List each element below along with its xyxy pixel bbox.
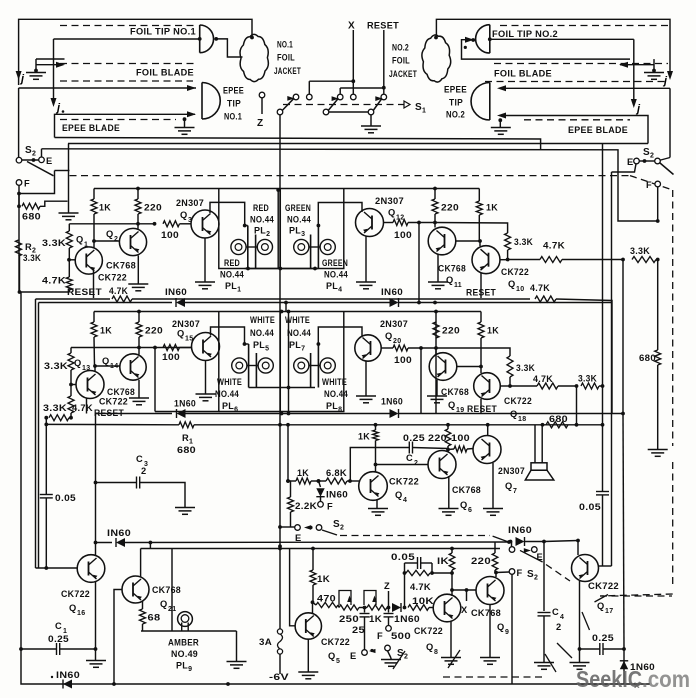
ground: epee blade No.1 [183, 117, 187, 121]
ground: E switch bottom [381, 659, 401, 661]
j arrow right [667, 71, 673, 80]
svg-text:CK768: CK768 [438, 264, 466, 274]
svg-text:EPEE: EPEE [444, 85, 467, 95]
svg-text:C: C [136, 454, 143, 464]
ground: Q17 [570, 662, 590, 664]
wire: F bottom right [496, 571, 509, 574]
wire: S2 blade to F node [21, 171, 55, 194]
wire: Q7 collector to rail [487, 425, 489, 436]
foil jacket No.1 blob [240, 34, 268, 81]
resistor 220 bottom [492, 553, 498, 570]
svg-text:1K: 1K [100, 326, 112, 336]
svg-text:IN60: IN60 [56, 670, 80, 680]
svg-text:C: C [552, 607, 559, 617]
svg-text:Q: Q [328, 651, 336, 661]
wire: Q16 base [36, 567, 78, 569]
rail: row1 top rail [94, 188, 479, 190]
wire: Q20 emitter ground [365, 361, 367, 396]
wire: reset feed to row2 [285, 303, 287, 312]
svg-text:4: 4 [403, 497, 407, 504]
svg-text:F: F [646, 180, 652, 190]
svg-text:FOIL TIP NO.2: FOIL TIP NO.2 [492, 29, 558, 39]
svg-text:1K: 1K [297, 468, 309, 478]
contact: epee tip No.2 [489, 83, 491, 121]
Z terminal [259, 92, 265, 98]
svg-text:2: 2 [414, 460, 418, 467]
wire: speaker feed [534, 425, 536, 463]
foil blade No.1 dashed box [60, 63, 196, 65]
wire: rail B drop to amber lamp [171, 549, 173, 632]
svg-text:RED: RED [224, 258, 240, 268]
resistor 10K [408, 605, 429, 611]
wire: Q21 collector up to rail B [140, 549, 142, 578]
wire: 0.05/4.7K loop [404, 573, 406, 608]
resistor 3.3K horizontal row2 [44, 416, 48, 420]
svg-text:NO.44: NO.44 [215, 389, 239, 399]
resistor 4.7K row1 right [540, 257, 562, 263]
svg-text:2: 2 [114, 236, 118, 243]
svg-text:GREEN: GREEN [285, 203, 311, 213]
svg-text:4.7K: 4.7K [410, 582, 431, 592]
ground: amber lamp [236, 631, 238, 661]
rail: R1 line [46, 423, 179, 425]
capacitor C3 [94, 481, 98, 485]
transistor Q17 CK722 [572, 555, 599, 582]
S2 right blade [660, 163, 674, 175]
capacitor C2 0.25 [350, 448, 409, 482]
wire: Q2 base [94, 240, 119, 242]
svg-text:IN60: IN60 [508, 525, 532, 535]
svg-text:X: X [348, 21, 355, 32]
svg-text:Q: Q [160, 599, 168, 609]
svg-text:Q: Q [102, 356, 110, 366]
resistor 1K row1 left [93, 189, 95, 200]
rail: ground bus drop right [602, 144, 604, 492]
wire: Q10 emitter to reset line [480, 273, 482, 298]
svg-text:IK: IK [437, 556, 449, 566]
wire: Q1 emitter to reset line [93, 269, 95, 298]
svg-text:3: 3 [188, 217, 192, 224]
S1 contacts bottom row [277, 109, 283, 115]
svg-text:16: 16 [77, 610, 85, 617]
svg-text:X: X [461, 605, 468, 615]
svg-text:Q: Q [395, 490, 403, 500]
ground: Q3 [195, 281, 215, 283]
lamp box row2 [155, 312, 219, 412]
wire between S1 poles [329, 111, 368, 113]
node: jacket No.1 connection [250, 36, 254, 40]
svg-text:NO.44: NO.44 [220, 270, 244, 280]
wire: Q2 emitter to ground [137, 256, 139, 284]
svg-text:11: 11 [454, 282, 462, 289]
wire: foil tip No.2 line [491, 38, 634, 40]
wire: Q11 emitter to ground [437, 255, 439, 282]
svg-text:2N307: 2N307 [375, 196, 404, 206]
svg-text:220: 220 [145, 326, 163, 336]
resistor 68 Q21 emitter [142, 601, 144, 609]
wires: row2 right verticals [420, 348, 422, 414]
transistor Q10 CK722 [472, 246, 500, 274]
diode IN60 row1 right [390, 298, 399, 307]
wire: 220 into Q14 [138, 348, 140, 355]
resistor 250 [339, 605, 359, 610]
diode 1N60 bottom chain [392, 603, 401, 612]
svg-text:Q: Q [74, 358, 82, 368]
svg-text:Q: Q [460, 500, 468, 510]
transistor Q15 2N307 [192, 333, 220, 361]
rail: E bus [42, 149, 659, 221]
resistor 1K row2 right [480, 312, 482, 323]
resistor 1K bottom chain [367, 605, 387, 610]
IN60 line (left) [94, 541, 98, 545]
wire: row2 base bus left [71, 347, 191, 349]
svg-text:4: 4 [560, 614, 564, 621]
svg-text:680: 680 [22, 212, 41, 222]
resistor 680 vertical right [657, 260, 659, 351]
resistor 4.7K reset row1 left [112, 296, 132, 302]
svg-text:250: 250 [339, 614, 359, 624]
wire: row1 center feed [277, 190, 279, 269]
ground: C3 [175, 507, 195, 509]
ground: foil blade No.1 [26, 72, 46, 74]
resistor 100 row1 left [163, 221, 180, 227]
svg-text:RESET: RESET [466, 288, 496, 298]
svg-text:AMBER: AMBER [168, 638, 199, 648]
contact E right [509, 547, 515, 553]
epee blade No.1 box [55, 114, 196, 137]
S1 gang dashed line [283, 104, 404, 106]
svg-text:JACKET: JACKET [389, 69, 417, 79]
svg-text:TIP: TIP [227, 99, 241, 109]
diode IN60 vertical with F [317, 479, 321, 483]
transistor Q8 CK722 [433, 594, 461, 622]
svg-text:Q: Q [426, 642, 434, 652]
transistor Q4 CK722 [359, 472, 388, 501]
ground: Q15 [196, 393, 216, 395]
svg-text:WHITE: WHITE [322, 377, 347, 387]
wire: foil tip No.1 to jacket [217, 39, 243, 57]
svg-text:4.7K: 4.7K [530, 283, 550, 293]
svg-text:.com: .com [642, 666, 690, 692]
wire: epee tip No.1 feed [19, 87, 196, 89]
resistor 680 (top left) [17, 204, 21, 208]
resistor 100 row2 right [381, 347, 393, 349]
wire: Q21 base [114, 590, 122, 685]
resistor 470 [313, 602, 317, 605]
svg-text:EPEE: EPEE [223, 86, 244, 96]
ground: foil blade No.2 [644, 72, 664, 74]
rail: epee blade box bottom (left) [55, 138, 541, 151]
svg-text:18: 18 [518, 416, 526, 423]
wire j No.1 down [53, 39, 55, 103]
diode IN60 bottom right [620, 661, 628, 669]
svg-text:0.05: 0.05 [391, 552, 415, 562]
ground: Q20 [356, 395, 376, 397]
diode IN60 row1 left [176, 298, 185, 307]
svg-text:0.05: 0.05 [579, 502, 601, 512]
capacitor 0.05 left [45, 424, 47, 494]
svg-text:CK768: CK768 [152, 585, 181, 595]
dashed: bottom boundary [600, 595, 672, 597]
diode line row1 [39, 302, 173, 304]
svg-text:0.25: 0.25 [592, 633, 614, 643]
wire: S2 mid wire [278, 525, 282, 529]
F terminal left [16, 180, 22, 186]
wire: epee tip No.2 feed [503, 87, 670, 89]
middle stage: 1K 6.8K to Q4 [278, 423, 282, 427]
wire: PL8 feed to Q20 [318, 327, 362, 344]
svg-text:-6V: -6V [269, 672, 289, 683]
wire: amber lamp feed [141, 630, 237, 632]
diode IN60 right (to E contact) [516, 537, 525, 546]
svg-text:4.7K: 4.7K [543, 241, 565, 251]
resistor 4.7K row2 right [537, 383, 558, 389]
resistor 1K mid [296, 478, 311, 484]
svg-text:17: 17 [605, 608, 613, 615]
dashed boundary upper [70, 175, 631, 177]
switch S2 mid [295, 525, 301, 531]
svg-text:SeekIC: SeekIC [576, 666, 642, 692]
svg-text:CK722: CK722 [99, 397, 128, 407]
svg-text:4.7K: 4.7K [72, 403, 93, 413]
wire: Q9 emitter ground [489, 605, 491, 658]
svg-text:5: 5 [336, 658, 340, 665]
svg-text:1K: 1K [369, 614, 382, 624]
svg-text:Q: Q [597, 601, 605, 611]
resistor 3.3K row2 right [581, 383, 599, 389]
wire: E contact right stem [612, 164, 637, 172]
resistor 1K mid2 [373, 430, 379, 441]
svg-text:NO.44: NO.44 [324, 389, 348, 399]
center vertical from S1 pole 1 down [279, 115, 281, 190]
wire: R1 node [44, 423, 48, 427]
wire: Q4 base node to Q6 [376, 464, 429, 466]
ground: top left rail [68, 144, 70, 213]
wire: Q3 collector to lamp PL2 [210, 202, 245, 225]
gang diagonal strokes bottom [393, 651, 405, 669]
svg-text:3.3K: 3.3K [516, 363, 535, 373]
svg-text:220: 220 [144, 203, 162, 213]
svg-text:1: 1 [84, 242, 88, 249]
wire: Q19 base to 1K [457, 366, 481, 368]
wire: base bus row1 right [435, 223, 508, 234]
svg-text:C: C [406, 453, 413, 463]
diode line row2 [96, 413, 173, 415]
wire: X node [452, 589, 476, 591]
S2 mid blade dashed [322, 530, 337, 535]
svg-text:E: E [295, 533, 302, 543]
wire: foil blade No.2 ground tap [620, 64, 654, 66]
svg-text:F: F [327, 502, 333, 512]
wire: 1K into Q10 [479, 241, 481, 246]
transistor Q18 CK722 [474, 373, 501, 400]
ground: Q9 [480, 657, 500, 659]
svg-text:6: 6 [468, 507, 472, 514]
svg-text:10K: 10K [412, 596, 434, 606]
lamps PL3 PL4 (GREEN) [310, 235, 312, 269]
transistor Q14 CK768 [120, 354, 146, 380]
resistor 3.3K to F line [632, 257, 656, 263]
wire: Q5 base from rail [290, 549, 296, 626]
svg-text:TIP: TIP [449, 98, 463, 108]
svg-text:Q: Q [385, 331, 393, 341]
wire: 4.7K node drop to diode line row2 [622, 260, 624, 414]
S1 blade 1 [282, 99, 293, 111]
resistor 1K bottom [312, 549, 314, 571]
svg-text:IN60: IN60 [107, 528, 131, 538]
svg-text:CK722: CK722 [98, 273, 127, 283]
wire: 220 into Q2 [137, 224, 139, 229]
wire: Q8 collector [451, 590, 453, 596]
transistor Q3 2N307 [191, 210, 219, 238]
transistor Q12 2N307 [356, 209, 384, 237]
svg-text:220: 220 [441, 203, 459, 213]
svg-text:FOIL: FOIL [392, 56, 410, 66]
svg-text:2.2K: 2.2K [295, 501, 317, 511]
diode IN60 row2 left [177, 409, 186, 418]
svg-text:NO.44: NO.44 [250, 328, 274, 338]
svg-text:220: 220 [428, 433, 447, 443]
resistor 100 row1 right [384, 222, 394, 224]
svg-text:4.7K: 4.7K [109, 286, 128, 297]
svg-text:Q: Q [69, 603, 77, 613]
wire: Q19 emitter ground [436, 380, 438, 396]
svg-text:NO.2: NO.2 [446, 110, 465, 120]
svg-text:15: 15 [185, 336, 193, 343]
transistor Q1 CK722 [75, 247, 102, 274]
ground: epee tip No.2 [498, 118, 502, 122]
transistor Q9 CK768 [476, 577, 504, 605]
wire: row1 right vertical to diode line [418, 223, 420, 303]
diode IN60 row2 right [390, 409, 399, 418]
transistor Q19 CK768 [429, 353, 457, 381]
svg-text:CK722: CK722 [501, 267, 529, 277]
svg-text:2N307: 2N307 [380, 319, 408, 329]
svg-text:Q: Q [76, 235, 84, 245]
epee blade No.2 box [503, 116, 648, 144]
wire: Q4 collector from rail [375, 425, 377, 430]
transistor Q21 CK768 [122, 576, 149, 603]
svg-text:1N60: 1N60 [394, 614, 420, 624]
svg-text:2N307: 2N307 [172, 319, 200, 329]
svg-text:E: E [627, 157, 634, 167]
wire: 4.7K drop right [623, 414, 624, 650]
wire: Q18 emitter to reset line [480, 399, 482, 414]
svg-text:WHITE: WHITE [217, 377, 242, 387]
svg-text:Z: Z [384, 581, 390, 591]
resistor 3.3K Q1 base [68, 224, 70, 231]
resistor 4.7K Q1 emitter [66, 277, 72, 290]
svg-text:CK722: CK722 [588, 581, 619, 591]
resistor 100 row2 left [163, 345, 180, 351]
wire: lamp bottoms row2 [249, 387, 315, 389]
capacitor 0.05 right [596, 491, 609, 493]
wire: Q15 emitter ground [205, 361, 207, 394]
wire: 1K into Q13 [94, 366, 96, 371]
transistor Q5 CK722 [295, 613, 321, 639]
capacitor 0.25 right [580, 648, 600, 650]
svg-text:CK768: CK768 [452, 485, 481, 495]
wire: row2 center drop [288, 312, 290, 414]
ground: 680 right [648, 449, 668, 451]
svg-text:NO.49: NO.49 [171, 649, 198, 659]
svg-text:RESET: RESET [67, 287, 102, 298]
svg-text:Q: Q [180, 210, 188, 220]
svg-text:CK768: CK768 [106, 261, 136, 271]
svg-text:Q: Q [508, 279, 516, 289]
svg-text:CK722: CK722 [389, 477, 419, 487]
svg-text:Z: Z [257, 118, 263, 129]
svg-text:E: E [46, 156, 53, 166]
ground: S1 common [370, 115, 372, 126]
resistor 100 mid [454, 446, 467, 452]
svg-text:x: x [634, 680, 640, 691]
resistor 4.7K Q13 [68, 396, 74, 413]
diode IN60 mid left [116, 538, 125, 547]
svg-text:F: F [24, 179, 30, 189]
svg-text:NO.44: NO.44 [287, 215, 311, 225]
pot 1K bump [364, 591, 376, 606]
svg-text:CK722: CK722 [414, 626, 443, 636]
wire: Q8 emitter ground [450, 621, 452, 657]
switch blade bottom [385, 645, 391, 651]
transistor Q13 CK722 [76, 371, 104, 399]
wire: foil tip No.1 line [54, 38, 199, 40]
rail: row2 top rail [94, 311, 481, 313]
ground: Q8 [441, 657, 461, 659]
svg-text:4.7K: 4.7K [42, 276, 66, 286]
svg-text:68: 68 [148, 613, 161, 623]
svg-text:Q: Q [177, 329, 185, 339]
wire: F line down to rail [511, 574, 513, 684]
contact: foil tip No.1 [199, 25, 201, 53]
svg-text:8: 8 [434, 649, 438, 656]
svg-text:Q: Q [446, 275, 454, 285]
svg-text:100: 100 [451, 433, 470, 443]
wire: Q3 emitter to ground [204, 238, 206, 282]
svg-text:680: 680 [549, 414, 568, 424]
resistor R1 680 [179, 422, 194, 428]
wire: Q12 emitter to ground [365, 236, 367, 282]
svg-text:NO.2: NO.2 [392, 43, 409, 53]
resistor 3.3K Q10 [505, 233, 511, 250]
wire: 1K to Q8 collector [451, 573, 453, 590]
svg-text:3.3K: 3.3K [42, 238, 66, 248]
contact: epee tip No.1 [201, 83, 203, 120]
svg-text:WHITE: WHITE [285, 315, 310, 325]
svg-text:E: E [350, 651, 357, 661]
transistor Q20 2N307 [355, 335, 381, 361]
capacitor 25 [364, 608, 366, 613]
wire: link 3.3K node down [576, 386, 578, 425]
wire: Q17 emitter bus [599, 565, 612, 567]
transistor Q7 2N307 [473, 436, 501, 464]
wire: row1 base bus left [69, 223, 155, 225]
dashed boundary right [672, 190, 674, 446]
resistor 1K row2 left [93, 312, 95, 323]
svg-text:FOIL BLADE: FOIL BLADE [494, 69, 552, 79]
dashed box: foil tip No.1 [60, 25, 195, 27]
ground: C4 [534, 662, 554, 664]
wire: Q15 collector to PL5 [211, 327, 245, 344]
svg-text:NO.44: NO.44 [324, 270, 348, 280]
svg-text:4.7K: 4.7K [533, 374, 553, 384]
ground: Q7 [483, 508, 503, 510]
wire: jacket No.2 top feed [436, 19, 670, 76]
wire: Q17 down to 0.25 line [579, 581, 581, 662]
svg-text:1K: 1K [99, 203, 111, 213]
svg-text:3.3K: 3.3K [630, 246, 650, 256]
